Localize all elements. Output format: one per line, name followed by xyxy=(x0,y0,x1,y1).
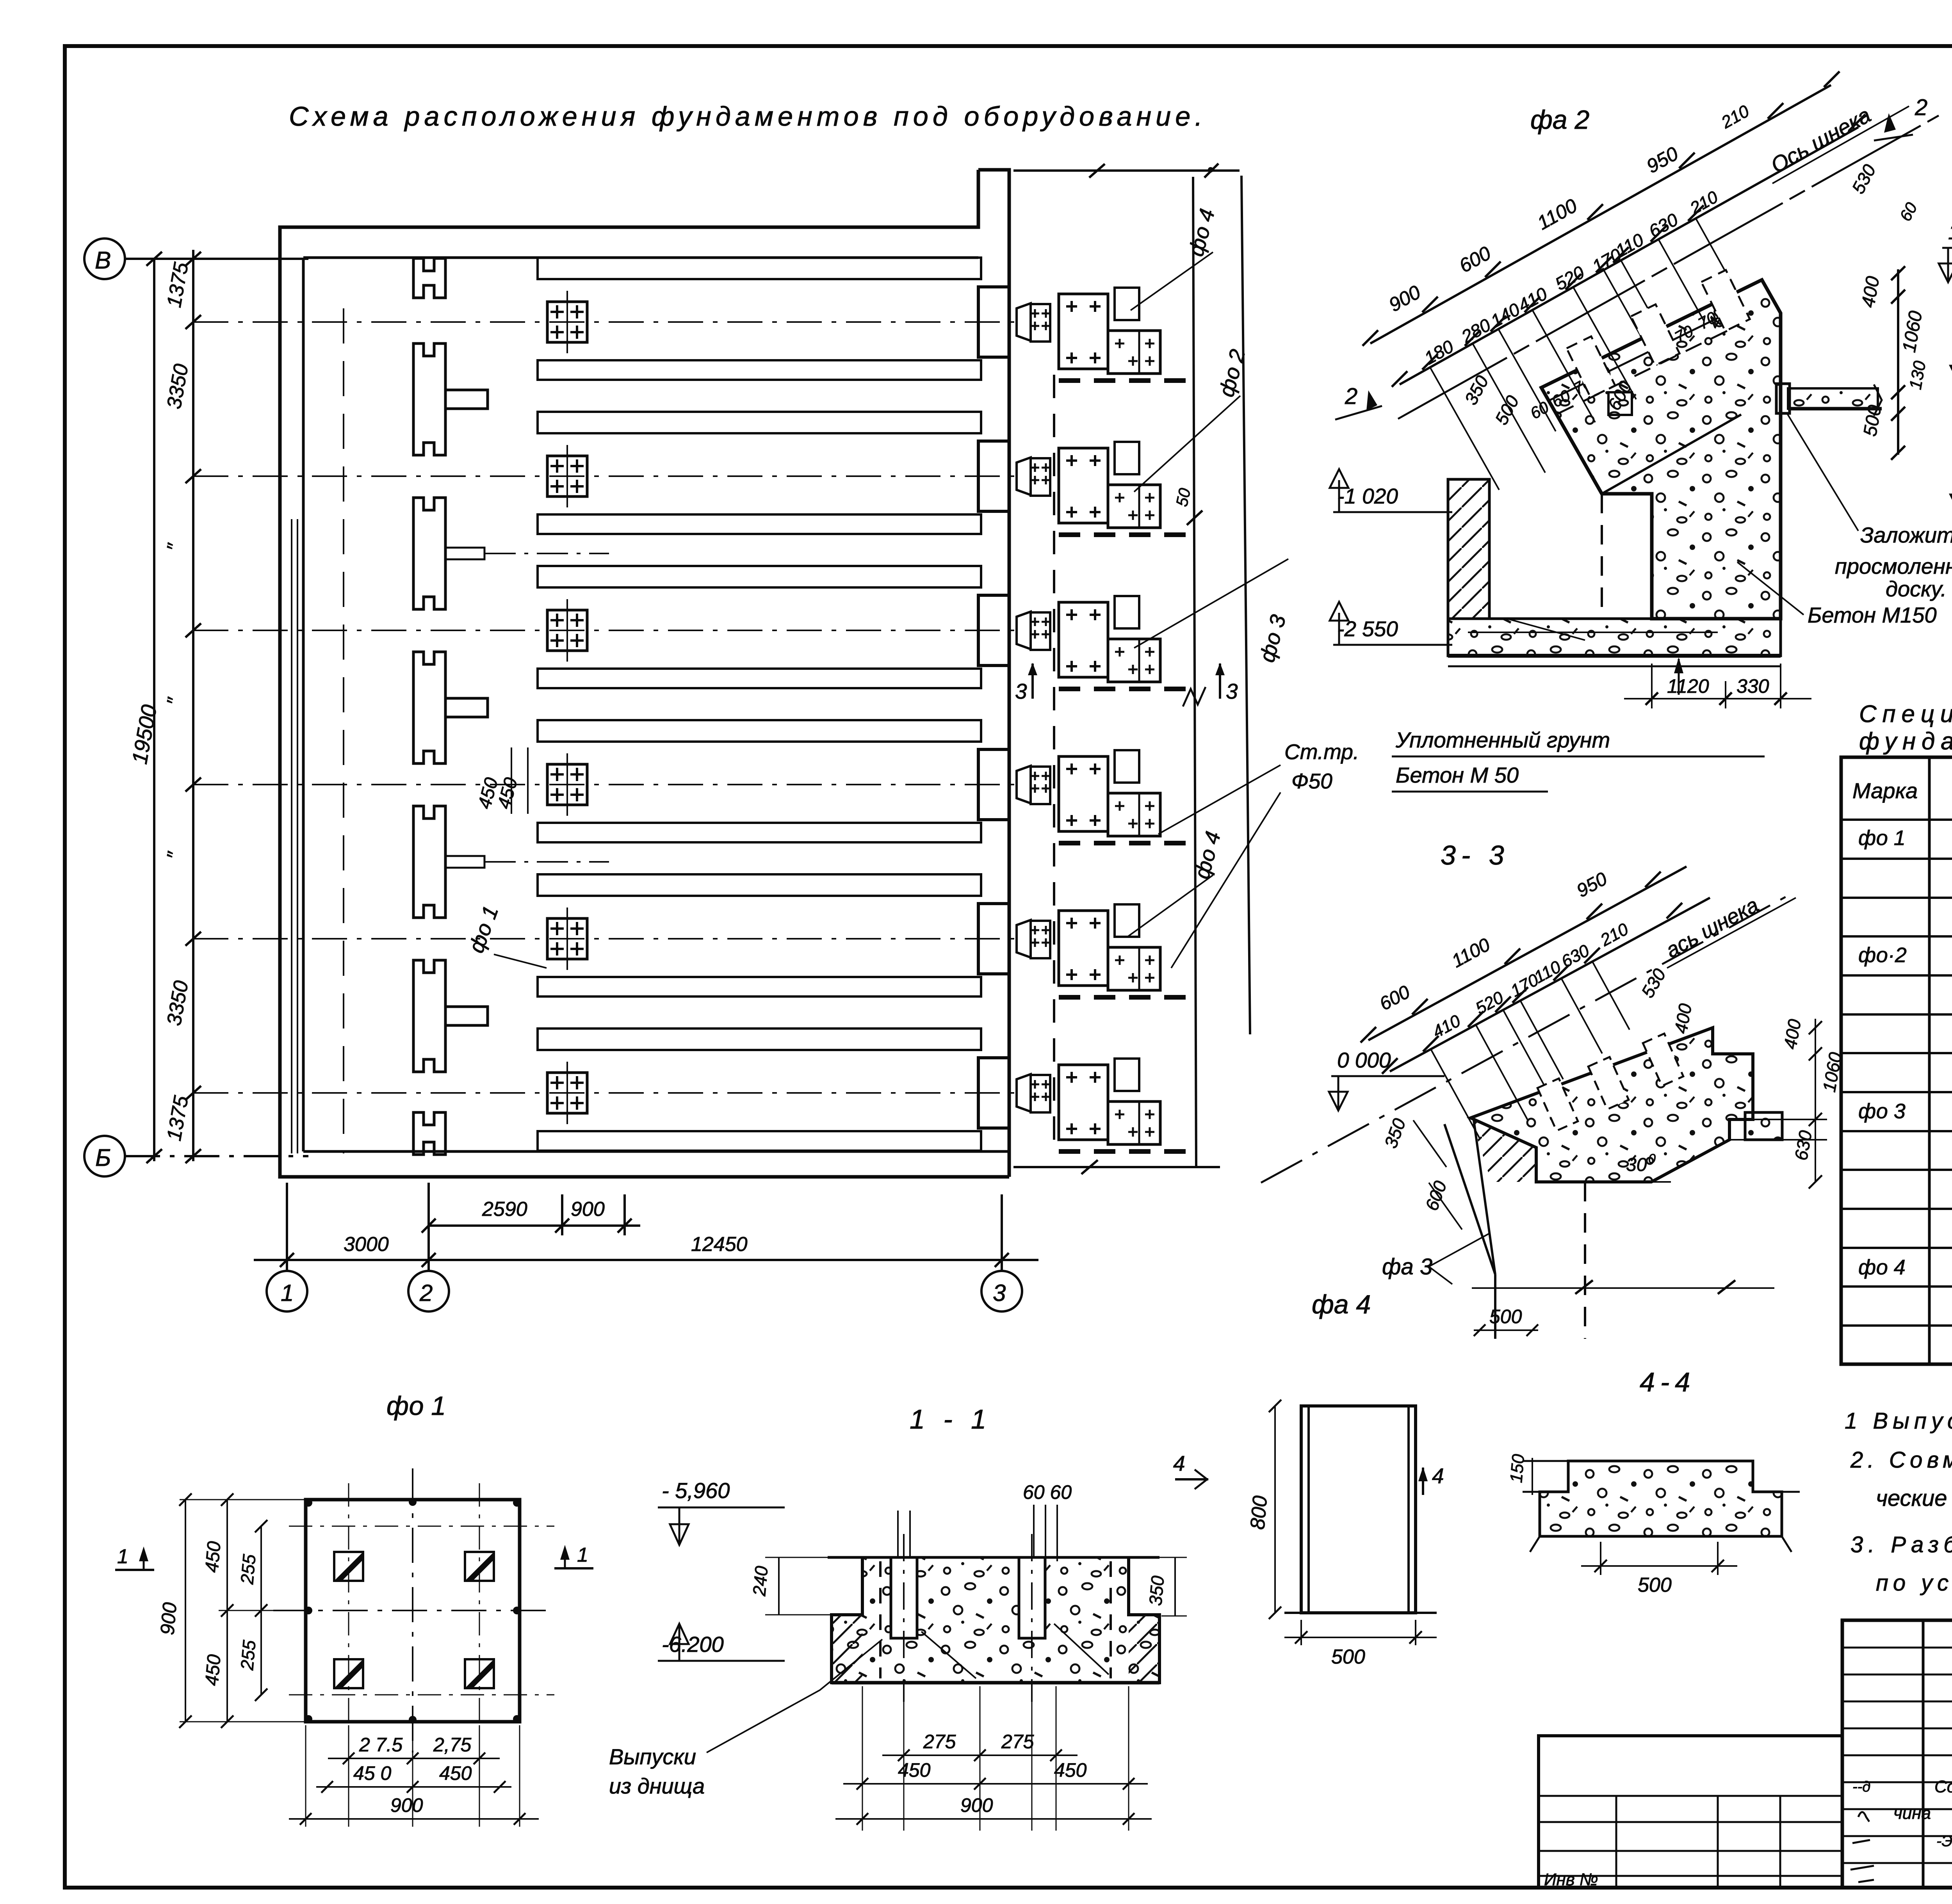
svg-text:275: 275 xyxy=(923,1731,956,1753)
svg-text:450: 450 xyxy=(201,1653,225,1687)
svg-text:Марка: Марка xyxy=(1852,778,1918,803)
svg-text:Бетон М150: Бетон М150 xyxy=(1808,603,1937,627)
svg-text:Заложить: Заложить xyxy=(1860,523,1952,547)
svg-text:2: 2 xyxy=(1915,95,1927,120)
svg-text:2 7.5: 2 7.5 xyxy=(359,1734,403,1756)
svg-text:3: 3 xyxy=(993,1280,1006,1306)
svg-text:фо·2: фо·2 xyxy=(1858,943,1907,967)
svg-text:-Эт.: -Эт. xyxy=(1936,1833,1952,1850)
svg-text:3: 3 xyxy=(1015,679,1027,703)
svg-text:900: 900 xyxy=(571,1198,605,1221)
svg-text:3- 3: 3- 3 xyxy=(1441,840,1510,870)
svg-text:1 - 1: 1 - 1 xyxy=(910,1404,992,1434)
svg-text:- 5,960: - 5,960 xyxy=(662,1478,730,1503)
svg-text:1.060: 1.060 xyxy=(1948,220,1952,244)
svg-text:фа 3: фа 3 xyxy=(1382,1254,1432,1279)
svg-text:--д: --д xyxy=(1852,1779,1870,1795)
svg-text:1: 1 xyxy=(577,1544,588,1566)
svg-text:450: 450 xyxy=(439,1762,472,1784)
svg-text:Схема расположения фундамент: Схема расположения фундаментов под обору… xyxy=(289,101,1202,132)
svg-text:0 000: 0 000 xyxy=(1337,1048,1391,1072)
svg-text:45 0: 45 0 xyxy=(353,1762,392,1784)
svg-text:900: 900 xyxy=(156,1601,181,1636)
svg-text:Ст.тр.: Ст.тр. xyxy=(1284,740,1359,764)
svg-text:450: 450 xyxy=(201,1540,225,1573)
svg-text:1: 1 xyxy=(117,1545,128,1568)
svg-text:255: 255 xyxy=(237,1639,260,1671)
svg-text:800: 800 xyxy=(1246,1495,1272,1530)
svg-text:2590: 2590 xyxy=(482,1198,527,1221)
svg-text:из днища: из днища xyxy=(609,1774,705,1798)
svg-text:1: 1 xyxy=(281,1280,294,1306)
svg-text:фа 4: фа 4 xyxy=(1312,1290,1371,1319)
svg-text:150: 150 xyxy=(1507,1453,1528,1484)
svg-text:4: 4 xyxy=(1432,1464,1444,1488)
svg-text:доску.: доску. xyxy=(1886,577,1947,601)
svg-text:Выпуски: Выпуски xyxy=(609,1744,696,1769)
svg-text:275: 275 xyxy=(1001,1731,1034,1753)
svg-text:3000: 3000 xyxy=(344,1233,389,1256)
svg-text:2: 2 xyxy=(1345,384,1357,409)
svg-text:1120: 1120 xyxy=(1667,675,1709,697)
svg-text:500: 500 xyxy=(1638,1574,1672,1596)
svg-text:330: 330 xyxy=(1736,675,1769,697)
svg-text:Бетон М 50: Бетон М 50 xyxy=(1396,763,1519,787)
svg-text:240: 240 xyxy=(749,1565,772,1597)
svg-text:фо 4: фо 4 xyxy=(1858,1256,1906,1279)
svg-text:фо 1: фо 1 xyxy=(1858,826,1906,850)
svg-text:450: 450 xyxy=(898,1759,931,1781)
svg-text:фо 3: фо 3 xyxy=(1858,1100,1906,1123)
svg-text:450: 450 xyxy=(1054,1759,1087,1781)
svg-text:30: 30 xyxy=(1626,1155,1647,1175)
svg-text:60 60: 60 60 xyxy=(1023,1481,1072,1503)
svg-text:Ф50: Ф50 xyxy=(1291,769,1332,793)
svg-text:Уплотненный грунт: Уплотненный грунт xyxy=(1395,728,1610,752)
svg-text:Сорокин: Сорокин xyxy=(1934,1777,1952,1796)
svg-text:4: 4 xyxy=(1173,1451,1185,1475)
svg-text:4-4: 4-4 xyxy=(1640,1367,1696,1397)
svg-text:по установочным чертежам об: по установочным чертежам оборудования. xyxy=(1876,1570,1952,1596)
svg-text:фо 1: фо 1 xyxy=(386,1391,446,1421)
svg-text:350: 350 xyxy=(1145,1575,1168,1606)
svg-text:2,75: 2,75 xyxy=(433,1734,472,1756)
svg-text:500: 500 xyxy=(1489,1306,1522,1327)
svg-text:2: 2 xyxy=(419,1280,433,1306)
svg-text:Б: Б xyxy=(95,1144,111,1171)
svg-text:чина: чина xyxy=(1893,1804,1931,1823)
svg-text:фа 2: фа 2 xyxy=(1530,105,1589,135)
svg-text:ческие чертежи.: ческие чертежи. xyxy=(1876,1486,1952,1511)
svg-text:3: 3 xyxy=(1226,679,1238,703)
svg-text:0: 0 xyxy=(1648,1151,1656,1166)
svg-text:Инв №: Инв № xyxy=(1544,1870,1598,1889)
svg-text:12450: 12450 xyxy=(691,1233,748,1256)
svg-text:255: 255 xyxy=(237,1553,260,1585)
svg-text:500: 500 xyxy=(1331,1646,1365,1668)
svg-text:900: 900 xyxy=(390,1794,423,1816)
svg-text:900: 900 xyxy=(960,1794,993,1816)
svg-text:просмоленную: просмоленную xyxy=(1835,554,1952,578)
svg-text:В: В xyxy=(95,247,111,274)
